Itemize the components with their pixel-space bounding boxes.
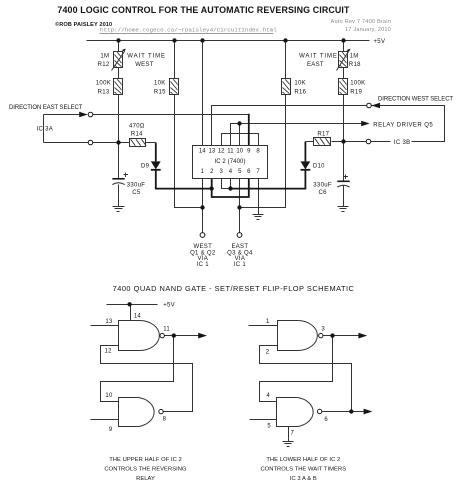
svg-text:R13: R13	[98, 89, 110, 95]
svg-text:THE UPPER HALF OF IC 2: THE UPPER HALF OF IC 2	[109, 457, 182, 463]
svg-text:4: 4	[266, 393, 270, 399]
svg-text:THE LOWER HALF OF IC 2: THE LOWER HALF OF IC 2	[266, 457, 340, 463]
svg-text:11: 11	[163, 326, 170, 332]
svg-text:CONTROLS THE REVERSING: CONTROLS THE REVERSING	[104, 467, 187, 473]
svg-text:2: 2	[210, 169, 214, 175]
svg-text:8: 8	[256, 149, 260, 155]
svg-text:7: 7	[256, 169, 260, 175]
svg-text:470Ω: 470Ω	[129, 123, 145, 129]
svg-text:R17: R17	[317, 131, 329, 137]
svg-text:EAST: EAST	[307, 62, 324, 68]
svg-text:Auto Rev 7 7400 Brain: Auto Rev 7 7400 Brain	[331, 19, 391, 25]
svg-text:EAST: EAST	[231, 244, 248, 250]
svg-text:IC 1: IC 1	[234, 262, 247, 268]
svg-text:http://home.cogeco.ca/~rpaisle: http://home.cogeco.ca/~rpaisley4/Circuit…	[100, 27, 277, 34]
svg-text:9: 9	[109, 427, 113, 433]
svg-text:7400 QUAD NAND GATE - SET/RESE: 7400 QUAD NAND GATE - SET/RESET FLIP-FLO…	[113, 284, 355, 293]
svg-text:R12: R12	[98, 62, 110, 68]
svg-text:17 January, 2010: 17 January, 2010	[345, 27, 391, 33]
svg-text:R15: R15	[154, 89, 166, 95]
svg-text:RELAY DRIVER Q5: RELAY DRIVER Q5	[373, 123, 433, 129]
svg-text:IC 1: IC 1	[197, 262, 210, 268]
svg-text:7: 7	[291, 431, 295, 437]
svg-text:6: 6	[324, 417, 328, 423]
svg-text:12: 12	[218, 149, 225, 155]
svg-text:1M: 1M	[350, 54, 359, 60]
svg-text:DIRECTION WEST SELECT: DIRECTION WEST SELECT	[378, 96, 453, 102]
svg-text:10K: 10K	[294, 81, 306, 87]
svg-text:WAIT TIME: WAIT TIME	[127, 53, 166, 59]
svg-text:6: 6	[247, 169, 251, 175]
svg-text:IC 3B: IC 3B	[394, 140, 411, 146]
svg-text:DIRECTION EAST SELECT: DIRECTION EAST SELECT	[9, 105, 83, 111]
svg-text:3: 3	[219, 169, 223, 175]
svg-text:13: 13	[105, 319, 113, 325]
svg-text:WEST: WEST	[194, 244, 213, 250]
svg-text:RELAY: RELAY	[136, 476, 155, 482]
svg-text:D10: D10	[313, 163, 325, 169]
svg-text:5: 5	[267, 424, 271, 430]
svg-text:+5V: +5V	[163, 303, 175, 309]
svg-text:C6: C6	[319, 190, 328, 196]
svg-text:4: 4	[229, 169, 233, 175]
svg-text:10: 10	[236, 149, 243, 155]
svg-text:IC 3A: IC 3A	[37, 127, 54, 133]
svg-text:5: 5	[238, 169, 242, 175]
svg-text:3: 3	[321, 326, 325, 332]
svg-text:100K: 100K	[96, 81, 111, 87]
svg-text:WEST: WEST	[135, 62, 154, 68]
svg-text:IC 3 A & B: IC 3 A & B	[290, 476, 317, 482]
svg-text:WAIT TIME: WAIT TIME	[299, 54, 338, 60]
svg-text:8: 8	[163, 417, 167, 423]
svg-text:C5: C5	[132, 190, 141, 196]
svg-text:14: 14	[199, 149, 206, 155]
svg-text:R16: R16	[294, 89, 306, 95]
svg-text:14: 14	[134, 313, 142, 319]
svg-text:10K: 10K	[154, 81, 166, 87]
svg-text:330uF: 330uF	[313, 182, 332, 188]
svg-text:2: 2	[266, 349, 270, 355]
svg-text:CONTROLS THE WAIT TIMERS: CONTROLS THE WAIT TIMERS	[260, 467, 346, 473]
svg-text:12: 12	[105, 348, 113, 354]
svg-text:1: 1	[201, 169, 205, 175]
svg-text:13: 13	[208, 149, 215, 155]
svg-text:R19: R19	[350, 89, 362, 95]
svg-text:100K: 100K	[350, 81, 365, 87]
svg-text:7400 LOGIC CONTROL FOR THE AUT: 7400 LOGIC CONTROL FOR THE AUTOMATIC REV…	[57, 5, 350, 15]
svg-text:+5V: +5V	[374, 39, 386, 45]
svg-text:D9: D9	[141, 163, 150, 169]
svg-text:1M: 1M	[100, 54, 109, 60]
svg-text:9: 9	[247, 149, 251, 155]
svg-text:R18: R18	[349, 62, 361, 68]
svg-text:330uF: 330uF	[127, 182, 146, 188]
svg-text:R14: R14	[131, 132, 143, 138]
svg-text:10: 10	[105, 393, 113, 399]
svg-text:11: 11	[227, 149, 234, 155]
svg-text:1: 1	[266, 319, 270, 325]
svg-text:IC 2 (7400): IC 2 (7400)	[214, 159, 245, 165]
